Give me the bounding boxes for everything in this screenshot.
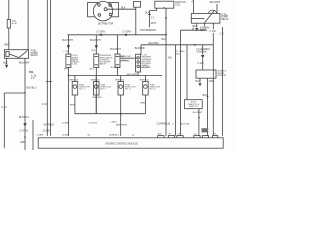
svg-text:C 102: C 102: [209, 30, 216, 33]
wire relay K1 output down: [24, 58, 26, 93]
wire fuel pump relay feed left: [193, 0, 195, 13]
distributor housing box: [88, 3, 119, 17]
wire W3 second top feed: [27, 0, 29, 50]
svg-text:15 [BK]: 15 [BK]: [62, 135, 69, 137]
svg-text:RELAY: RELAY: [221, 18, 229, 21]
injector 2 box: [94, 82, 100, 96]
wire pair line 1: [46, 0, 48, 136]
wire injector 2 down: [95, 95, 97, 114]
relay K1 coil: [6, 52, 9, 57]
svg-text:TACHOMETER: TACHOMETER: [140, 29, 156, 32]
injector 2 coil: [94, 85, 98, 89]
connector arrow A4: [95, 45, 98, 49]
svg-text:1 [BK]: 1 [BK]: [110, 121, 116, 123]
svg-text:LT GRN: LT GRN: [19, 130, 28, 133]
relay K1 contact blade: [19, 50, 28, 57]
svg-text:RELAY: RELAY: [31, 54, 39, 57]
wire VSS signal down: [207, 78, 209, 135]
connector arrow A2: [201, 55, 204, 59]
svg-text:BLK: BLK: [64, 69, 69, 71]
wire drop x175.5: [175, 45, 177, 136]
svg-text:C 1: C 1: [151, 16, 155, 19]
wire relay K2 main output: [212, 23, 214, 29]
svg-text:BLK: BLK: [145, 12, 150, 15]
ECM pin box 3: [177, 136, 183, 140]
svg-text:BRN: BRN: [140, 102, 145, 104]
connector block dark: [202, 128, 209, 132]
svg-text:BLK: BLK: [91, 50, 96, 52]
connector arrow A3: [67, 45, 70, 49]
svg-text:BLU/YEL: BLU/YEL: [181, 123, 191, 125]
wire drop column A: [67, 35, 69, 54]
svg-text:ECM: ECM: [12, 23, 17, 25]
injector 4 box: [143, 82, 149, 96]
connector arrow A1: [23, 123, 26, 127]
fuse F1 30A ECM: [7, 20, 10, 29]
svg-text:C 10: C 10: [1, 106, 7, 109]
junction dot coil: [163, 7, 164, 8]
svg-text:BLK/WHT: BLK/WHT: [210, 1, 221, 4]
wire injector 3 feed: [120, 76, 122, 82]
condenser box: [134, 2, 141, 8]
svg-text:BLK/PNK: BLK/PNK: [149, 42, 160, 45]
wire fuel pump relay feed right: [216, 4, 218, 13]
wire main output continues: [24, 93, 26, 150]
junction dot: [194, 44, 196, 46]
svg-text:[BRN/RED]: [BRN/RED]: [116, 125, 127, 127]
wire far right vertical: [222, 27, 224, 136]
wire box B down: [95, 68, 97, 114]
connector tick pair: [148, 14, 151, 16]
svg-text:BLK/WHT: BLK/WHT: [90, 39, 101, 42]
ECM pin box 5: [202, 136, 208, 140]
junction dot: [68, 75, 70, 77]
ECM pin box 1: [158, 136, 164, 140]
svg-text:GRN: GRN: [209, 80, 215, 83]
valve box C air regulator: [115, 54, 120, 68]
svg-text:12 [BK]: 12 [BK]: [62, 123, 70, 125]
wire drop to throttle switch: [186, 45, 188, 100]
svg-text:16 [BRN] 4: 16 [BRN] 4: [109, 135, 120, 137]
svg-text:BLK/PNK: BLK/PNK: [135, 47, 146, 50]
svg-text:C 101: C 101: [72, 64, 78, 66]
ECM engine control module box: [38, 138, 223, 148]
ECM pin box 4: [194, 136, 200, 140]
wire branch horizontal: [4, 92, 25, 94]
svg-text:GRN/BLK: GRN/BLK: [196, 50, 207, 53]
wire drop column D air flow sensor: [140, 45, 142, 54]
ground G1: [5, 65, 8, 68]
svg-text:BRN/BLK: BRN/BLK: [93, 97, 103, 99]
distributor terminal SE: [109, 13, 112, 16]
ignition coil box: [155, 1, 174, 8]
distributor center terminal: [104, 8, 107, 11]
injector 4 coil: [144, 85, 148, 89]
injector 3 box: [118, 82, 124, 96]
wire injector 1 down: [74, 95, 76, 114]
wire drop to speed sensor: [202, 45, 204, 55]
junction dot: [120, 113, 122, 115]
air flow sensor circles: [137, 57, 139, 59]
wire injector 4 down: [144, 95, 146, 114]
svg-text:COIL: COIL: [175, 3, 181, 6]
wire W1 left feed top: [8, 0, 10, 20]
bus B4 injector ground: [75, 113, 145, 115]
svg-text:SENSOR: SENSOR: [120, 60, 130, 62]
svg-text:C 102: C 102: [200, 27, 207, 30]
svg-text:BLK: BLK: [121, 7, 126, 10]
connector ticks on bus: [124, 34, 126, 36]
relay K2 hump: [209, 10, 217, 13]
injector 1 coil: [73, 85, 77, 89]
svg-text:LT GRN: LT GRN: [96, 30, 105, 33]
svg-text:YEL: YEL: [168, 56, 173, 59]
svg-text:13 [BK]: 13 [BK]: [43, 129, 51, 132]
relay K2 blade: [205, 10, 215, 23]
wire relay K2 coil ground: [196, 23, 198, 27]
svg-text:BLK/WHT: BLK/WHT: [19, 61, 30, 64]
svg-text:DISTRIBUTOR: DISTRIBUTOR: [98, 24, 114, 26]
connector tick up: [192, 28, 194, 31]
wire relay K2 aux output: [204, 23, 206, 26]
wire box D down: [137, 72, 139, 76]
ground G3: [199, 83, 202, 86]
svg-text:NO. 3: NO. 3: [125, 89, 131, 91]
svg-text:BLK: BLK: [193, 25, 198, 28]
wire throttle switch down: [198, 109, 200, 136]
wire drop column C: [117, 35, 119, 54]
svg-text:BLK: BLK: [90, 69, 95, 71]
svg-text:C 18: C 18: [63, 51, 68, 53]
wire condenser drop: [135, 7, 137, 35]
wire W2 fuse to main relay: [8, 28, 10, 50]
svg-text:BLK: BLK: [3, 61, 8, 64]
svg-text:VALVE: VALVE: [100, 63, 107, 66]
wire stub link upper: [181, 29, 208, 31]
wire box C down: [117, 68, 119, 76]
svg-text:WHT/BLU: WHT/BLU: [44, 124, 55, 127]
wire VSS ground stub: [199, 78, 201, 82]
svg-text:WHT: WHT: [4, 44, 10, 47]
distributor terminal SW: [98, 14, 101, 17]
svg-text:4P CONN: 4P CONN: [142, 67, 152, 69]
svg-text:SWITCH: SWITCH: [189, 106, 198, 108]
svg-text:13 [BK]: 13 [BK]: [36, 135, 43, 137]
wire pair line 2: [49, 0, 51, 136]
svg-text:C 2: C 2: [220, 33, 224, 36]
wire drop x180.5: [180, 30, 182, 135]
wire drop column B: [95, 35, 97, 54]
junction dot: [24, 136, 26, 138]
wire box A down: [67, 68, 69, 137]
valve B terminal marks: [95, 55, 99, 57]
svg-text:BLK/BLU: BLK/BLU: [19, 116, 29, 119]
ECM pin box 2: [168, 136, 174, 140]
svg-text:SENSOR: SENSOR: [217, 75, 226, 77]
junction dot on bus: [165, 34, 167, 36]
valve box A cold start valve: [66, 54, 71, 68]
injector 1 box: [72, 82, 78, 96]
bus B3 injector feed: [68, 75, 162, 77]
relay K1 main relay box: [4, 50, 28, 59]
wire coil tach lead: [150, 8, 157, 27]
svg-text:BLK/WHT: BLK/WHT: [110, 48, 121, 51]
svg-text:NO. 4: NO. 4: [150, 89, 156, 91]
wire injector 4 feed: [144, 76, 146, 82]
svg-text:BLK/WHT: BLK/WHT: [62, 39, 73, 42]
svg-text:4 P: 4 P: [31, 77, 35, 80]
terminal square: [165, 17, 167, 19]
svg-text:LT GRN: LT GRN: [122, 30, 131, 33]
svg-text:C 10: C 10: [42, 103, 48, 106]
ECM pin box 6: [213, 136, 218, 140]
throttle switch box: [185, 100, 203, 109]
wire left drop to bottom: [3, 93, 5, 148]
connector ticks on bus: [99, 34, 101, 36]
svg-text:BLK: BLK: [176, 54, 181, 56]
svg-text:BRN: BRN: [70, 104, 75, 106]
svg-text:NO. 1: NO. 1: [79, 89, 85, 91]
wire injector 2 feed: [95, 76, 97, 82]
bus B1 horizontal mid right: [141, 44, 213, 46]
svg-text:2 [GRN/BLK]: 2 [GRN/BLK]: [156, 122, 170, 125]
wire distributor output: [107, 8, 136, 10]
valve A terminal marks: [67, 55, 71, 57]
wire coil negative down: [165, 8, 167, 136]
svg-text:YEL: YEL: [29, 70, 35, 74]
svg-text:C 117: C 117: [198, 62, 205, 65]
wire injector 1 feed: [74, 76, 76, 82]
wire injector 3 down to ECM: [120, 95, 122, 136]
svg-text:ENGINE CONTROL MODULE: ENGINE CONTROL MODULE: [106, 142, 139, 145]
svg-text:BLK/BLU: BLK/BLU: [27, 86, 37, 89]
wire relay K1 coil ground stub: [6, 58, 8, 64]
junction dot: [24, 92, 25, 93]
ground G2: [195, 28, 198, 31]
junction dot: [207, 96, 209, 98]
wire stray left of ECM: [32, 120, 34, 150]
junction dot: [198, 117, 200, 119]
svg-text:BLK: BLK: [195, 80, 200, 83]
valve C terminal marks: [116, 55, 120, 57]
bus B2 horizontal main: [67, 34, 166, 36]
relay K2 fuel pump relay box: [191, 13, 220, 23]
connector ticks on pair lines: [46, 81, 49, 83]
svg-text:10 [YEL]: 10 [YEL]: [88, 123, 97, 125]
svg-text:BLK/WHT: BLK/WHT: [193, 112, 203, 114]
svg-text:GRN: GRN: [20, 141, 26, 144]
relay K2 coil lead: [191, 18, 204, 20]
svg-text:NO. 2: NO. 2: [101, 89, 107, 91]
distributor terminal NE: [109, 4, 112, 7]
svg-text:WHT: WHT: [151, 22, 157, 25]
air flow sensor box: [136, 54, 141, 72]
svg-text:BLK: BLK: [161, 38, 166, 41]
distributor body circle: [93, 2, 112, 21]
relay K1 internal lead: [9, 54, 19, 58]
wire into speed sensor: [202, 58, 204, 70]
distributor terminal NW: [98, 4, 101, 7]
injector 3 coil: [119, 85, 123, 89]
valve box B pressure regulator: [94, 54, 99, 68]
wire K2 output continues to ECM: [212, 33, 214, 136]
vehicle speed sensor box: [196, 70, 216, 78]
